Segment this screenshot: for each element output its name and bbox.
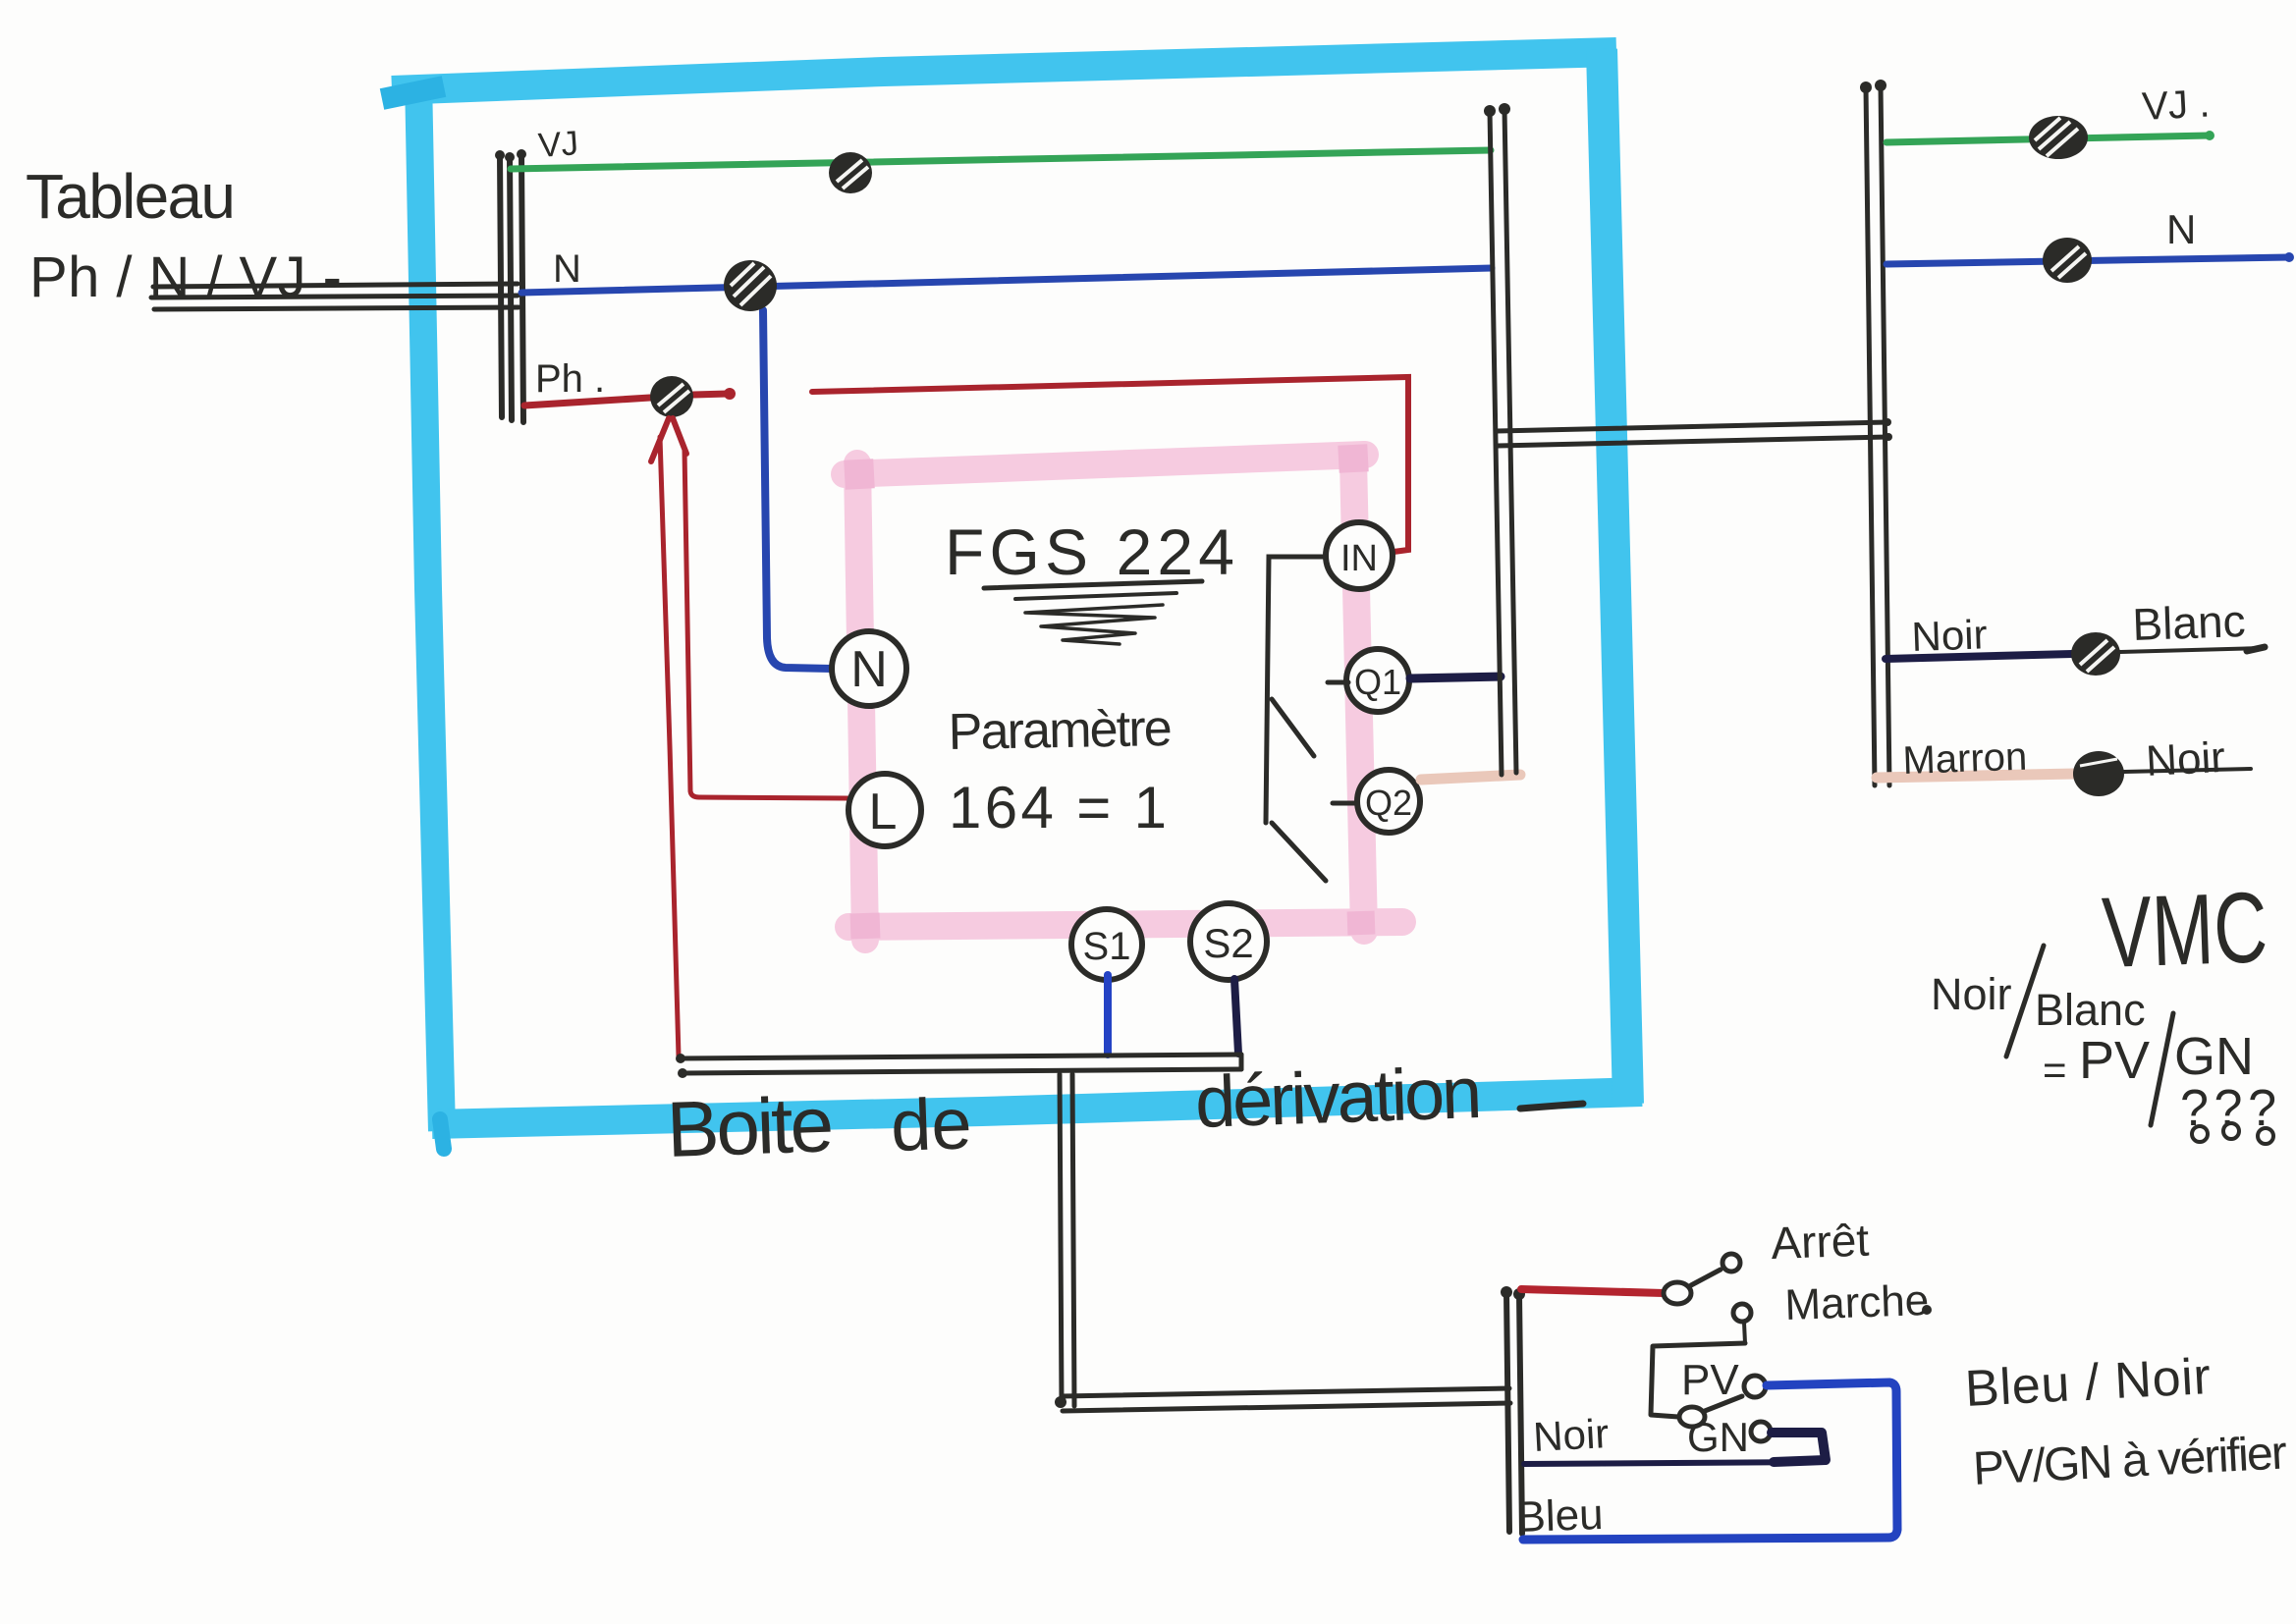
svg-text:Marron: Marron xyxy=(1902,735,2028,783)
svg-text:=: = xyxy=(2043,1047,2067,1093)
svg-text:Arrêt: Arrêt xyxy=(1771,1215,1871,1269)
wire Noir (dark navy) right middle xyxy=(1886,654,2072,659)
terminal bar top blobs xyxy=(495,149,526,162)
FGS 224 underlines xyxy=(984,581,1202,588)
wire GN hook (dark navy) xyxy=(1772,1433,1826,1462)
terminal bar (3 vertical lines) xyxy=(500,154,523,422)
S1/S2 wires down to bus xyxy=(1104,975,1112,1055)
svg-text:S2: S2 xyxy=(1203,920,1253,966)
svg-text:Noir: Noir xyxy=(1911,611,1989,660)
wire VJ right side (green) xyxy=(1886,135,2210,142)
svg-text:N: N xyxy=(850,641,888,698)
left vertical cable pair xyxy=(1490,109,1516,775)
FGS224 pink corner overlaps xyxy=(844,459,875,490)
bottom bus cable pair xyxy=(681,1055,1241,1073)
svg-text:dérivation: dérivation xyxy=(1194,1052,1484,1143)
FGS224 module left side xyxy=(857,463,865,940)
Marche contact xyxy=(1733,1304,1751,1322)
svg-text:Blanc: Blanc xyxy=(2132,595,2247,650)
switch pivot contact xyxy=(1664,1282,1691,1304)
red return arrow shaft (to Ph connector) xyxy=(660,437,679,1056)
svg-text:Q1: Q1 xyxy=(1354,662,1401,702)
dash after derivation xyxy=(1520,1104,1583,1109)
FGS 224 scribble xyxy=(1025,605,1163,644)
wire Marron (pale tan) right middle xyxy=(1877,774,2075,778)
connector on right VJ xyxy=(2029,116,2088,159)
horizontal cable pair to bottom right xyxy=(1062,1388,1510,1411)
svg-text:GN: GN xyxy=(1687,1414,1749,1460)
svg-text:Noir: Noir xyxy=(1532,1410,1610,1460)
FGS224 module right side xyxy=(1353,460,1364,931)
svg-text:Boite: Boite xyxy=(665,1080,835,1173)
svg-text:VJ: VJ xyxy=(537,124,579,165)
terminal S2 of module xyxy=(1190,903,1267,980)
right vertical cable pair xyxy=(1866,85,1889,785)
svg-text:164 = 1: 164 = 1 xyxy=(949,775,1167,840)
FGS224 module bottom side xyxy=(848,922,1402,927)
connector Marron/Noir xyxy=(2073,751,2124,796)
terminal N of module xyxy=(832,631,906,706)
svg-text:Blanc: Blanc xyxy=(2035,985,2146,1035)
GN contact xyxy=(1751,1422,1771,1441)
switch blade to Arret xyxy=(1691,1270,1721,1285)
connector on Ph wire xyxy=(650,376,693,417)
wire Blanc (thin black) xyxy=(2119,648,2263,652)
wire Noir long (dark navy) xyxy=(1524,1462,1817,1464)
svg-text:Noir: Noir xyxy=(2145,733,2226,785)
svg-text:PV: PV xyxy=(2079,1031,2150,1090)
svg-text:Ph .: Ph . xyxy=(535,357,605,401)
FGS224 module outline (pink marker) top side xyxy=(845,455,1365,474)
svg-text:VJ .: VJ . xyxy=(2141,81,2211,129)
connector Noir/Blanc xyxy=(2071,632,2120,676)
junction box left side xyxy=(418,77,442,1131)
wire VJ (green) main run xyxy=(511,150,1491,169)
svg-text:VMC: VMC xyxy=(2101,871,2269,989)
junction box outline (cyan marker) top side xyxy=(392,52,1616,90)
wire Ph (red) from bar to connector xyxy=(524,398,650,406)
svg-text:L: L xyxy=(869,784,898,840)
terminal S1 of module xyxy=(1071,909,1142,980)
junction box corner tail bottom-left xyxy=(440,1119,444,1149)
svg-text:N: N xyxy=(553,247,581,291)
switch feed wire (red) bottom right xyxy=(1521,1289,1664,1293)
link Marche to PV-switch frame xyxy=(1651,1343,1745,1417)
svg-text:Paramètre: Paramètre xyxy=(948,700,1173,761)
connector on right N xyxy=(2043,238,2092,283)
svg-text:N: N xyxy=(2166,206,2196,252)
terminal L of module xyxy=(848,774,921,846)
PV/GN switch pivot xyxy=(1679,1407,1705,1427)
red arrow head xyxy=(651,418,686,461)
svg-text:Marche: Marche xyxy=(1784,1276,1930,1329)
svg-text:de: de xyxy=(890,1082,973,1166)
connector on VJ wire xyxy=(829,152,872,193)
wire N right side (blue) xyxy=(1886,257,2289,264)
wire Ph (red) main run to IN xyxy=(812,377,1408,552)
svg-text:Bleu: Bleu xyxy=(1516,1490,1605,1542)
terminal Q2 of module xyxy=(1357,770,1420,833)
terminal Q1 of module xyxy=(1346,649,1409,712)
junction box right side xyxy=(1602,49,1628,1104)
wire from Q1 (dark navy) xyxy=(1410,677,1501,678)
svg-text:Tableau: Tableau xyxy=(26,161,236,232)
horizontal cable pair (to right cable) xyxy=(1497,422,1888,446)
PV contact xyxy=(1744,1376,1766,1397)
bottom right vertical cable pair xyxy=(1506,1292,1522,1534)
vertical cable pair below bus xyxy=(1060,1074,1074,1406)
svg-text:GN: GN xyxy=(2174,1027,2254,1086)
svg-text:IN: IN xyxy=(1340,538,1378,579)
Arret contact xyxy=(1722,1254,1740,1272)
connector on N wire xyxy=(724,260,777,311)
wire from Q2 (pale tan) xyxy=(1421,775,1520,780)
relay switch bracket at IN/Q1/Q2 xyxy=(1266,557,1355,881)
PV/GN switch blade xyxy=(1705,1396,1742,1411)
wire PV (bright blue loop) xyxy=(1523,1382,1897,1540)
svg-text:Noir: Noir xyxy=(1931,969,2012,1019)
wire Ph stub right of connector xyxy=(693,394,728,395)
terminal IN of module xyxy=(1326,522,1393,589)
svg-text:PV: PV xyxy=(1681,1356,1739,1404)
feeder cable from tableau (3 lines) xyxy=(151,284,519,309)
svg-text:Q2: Q2 xyxy=(1365,783,1412,823)
wire N branch down to module xyxy=(763,310,832,669)
note ooo xyxy=(2192,1123,2273,1144)
junction box bottom side xyxy=(432,1092,1642,1124)
wire N (blue) main run xyxy=(521,268,1492,293)
junction box corner overlap top-left xyxy=(382,86,444,99)
svg-text:S1: S1 xyxy=(1083,925,1131,968)
wire Noir thin (bottom of marron) xyxy=(2124,769,2251,772)
